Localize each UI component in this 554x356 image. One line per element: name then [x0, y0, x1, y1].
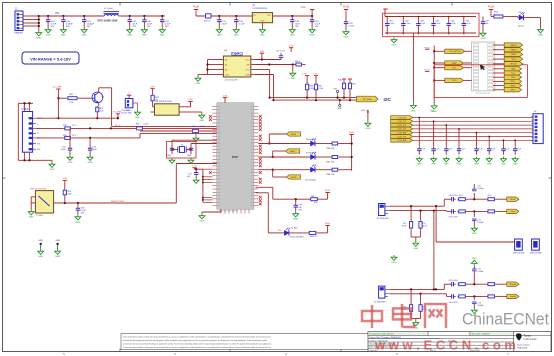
svg-text:GND: GND: [290, 35, 295, 37]
inductor L1: [98, 8, 122, 22]
ground audio1 resistors: [413, 241, 419, 250]
svg-text:GND: GND: [260, 35, 265, 37]
capacitor C52 crystal right: [187, 144, 193, 157]
svg-text:GND: GND: [36, 38, 41, 40]
svg-text:R36 470: R36 470: [327, 148, 335, 150]
svg-text:GND: GND: [127, 35, 132, 37]
resistor R63 for D5: [291, 231, 328, 238]
svg-text:A1: A1: [225, 63, 227, 66]
test point GND TP1: [38, 240, 44, 258]
svg-text:C63 0.47uF: C63 0.47uF: [449, 195, 459, 197]
capacitor C81: [385, 17, 395, 35]
pushbutton SW1: [30, 187, 58, 217]
wire R59 to Q1 base: [78, 97, 92, 99]
resistor R70 audio1: [402, 206, 413, 229]
jumper J6 Disable UART: [121, 99, 133, 115]
resistor R71 audio1: [419, 211, 427, 230]
wire U8 VCC to 1.8V flag: [255, 51, 281, 61]
svg-text:TRST: TRST: [511, 54, 517, 56]
svg-text:GND: GND: [217, 35, 222, 37]
wire SCL SDA to I2C bus: [255, 70, 275, 102]
ground below C51: [67, 155, 73, 164]
resistor R55: [63, 125, 77, 130]
svg-text:Mod. Date: 7/20/2017: Mod. Date: 7/20/2017: [472, 333, 490, 336]
svg-text:GND: GND: [417, 164, 422, 166]
power flag 3.3V output: [301, 6, 315, 16]
ferrite bead FB1: [204, 14, 212, 23]
svg-text:SCL: SCL: [246, 69, 250, 71]
EEPROM U8 (OpAC): [220, 50, 255, 81]
svg-text:KEY: KEY: [511, 90, 516, 92]
svg-text:25V: 25V: [147, 26, 151, 28]
svg-text:TIDA-01343: TIDA-01343: [517, 347, 527, 350]
svg-text:D6 Red: D6 Red: [306, 139, 314, 141]
resistor R79 audio2 row2: [458, 295, 467, 298]
svg-text:SH1: SH1: [37, 143, 40, 145]
LED D5 blue: [283, 228, 305, 239]
wire audio1 resistor commons: [411, 229, 420, 241]
wire D+ to DSP: [72, 127, 217, 129]
net tag LED1: [268, 132, 300, 145]
svg-text:GND: GND: [75, 222, 80, 224]
svg-text:GND: GND: [234, 35, 239, 37]
power label PU20 header upper: [424, 47, 430, 49]
svg-text:47pF: 47pF: [61, 149, 66, 151]
power flags above I2C pullups R44 R45: [302, 74, 318, 83]
svg-text:32.4: 32.4: [488, 195, 492, 197]
capacitor C85: [447, 17, 457, 35]
resistor R47 pullup: [348, 82, 356, 100]
wire DSP 1.2V pin column: [202, 169, 213, 202]
svg-text:47pF: 47pF: [92, 149, 97, 151]
capacitor C43: [159, 16, 171, 37]
wire USB shield loop: [18, 102, 33, 160]
wire vertical pair to audio2: [434, 206, 436, 289]
svg-text:A0: A0: [225, 58, 227, 61]
net tag LED2: [272, 149, 300, 158]
wire audio1 row1 mid: [467, 198, 487, 200]
watermark www.ECCN.com: [374, 339, 516, 353]
capacitor C84: [431, 17, 441, 35]
capacitor C62 bus bypass: [443, 124, 452, 166]
display bus tags: [391, 116, 413, 142]
resistor R36: [317, 142, 352, 150]
resistor R78 audio2 row1: [458, 283, 467, 286]
resistor R57 on Q1 emitter: [96, 103, 105, 119]
svg-text:GND: GND: [510, 85, 515, 87]
header right tags group 2: [493, 67, 522, 92]
wire decoupling rail top and bottom: [385, 9, 476, 34]
resistor R62: [295, 61, 306, 66]
resistor R44: [306, 83, 315, 98]
wire DSP to D7: [258, 156, 309, 158]
resistor R81 audio2 row2: [487, 295, 496, 298]
capacitor C71 coupling lower: [472, 211, 484, 226]
svg-text:I2C: I2C: [384, 97, 392, 103]
power flag right of U6: [185, 99, 193, 107]
svg-text:GND: GND: [68, 162, 73, 164]
ground below C57: [193, 178, 199, 183]
svg-text:LCD_D0: LCD_D0: [398, 117, 407, 119]
net tag header left 1: [434, 49, 471, 53]
net tag audio1 row2 Lout: [496, 209, 519, 213]
resistor R64: [151, 94, 160, 107]
capacitor C63 bus bypass: [456, 128, 465, 166]
svg-text:GND: GND: [38, 240, 43, 242]
svg-text:FB2: FB2: [136, 124, 139, 126]
svg-text:GND: GND: [200, 221, 205, 223]
capacitor C42: [141, 16, 152, 37]
capacitor C73 coupling lower audio2: [472, 296, 484, 308]
LED D6 Red: [306, 138, 317, 146]
svg-text:0.1uF: 0.1uF: [466, 23, 472, 25]
net tag audio1 row1 Rout: [496, 197, 519, 201]
svg-text:TDO: TDO: [452, 80, 457, 82]
crystal Y1: [178, 144, 186, 152]
net tag header left 2: [434, 61, 471, 65]
wire RESET from switch to DSP: [58, 164, 217, 205]
svg-text:GND: GND: [392, 262, 397, 264]
svg-text:LCD_EN: LCD_EN: [397, 140, 406, 142]
capacitor C50 crystal left: [167, 144, 174, 157]
wire decap box to ground rail: [412, 33, 414, 103]
svg-text:GND: GND: [29, 217, 34, 219]
svg-text:GND: GND: [392, 45, 397, 47]
svg-text:VIN: VIN: [55, 12, 59, 15]
svg-text:C65 0.47uF: C65 0.47uF: [449, 280, 459, 282]
svg-text:1500pF: 1500pF: [200, 126, 207, 128]
svg-text:LCD_D3: LCD_D3: [398, 129, 407, 131]
capacitor C62 near U8: [276, 51, 286, 60]
capacitor C83: [416, 17, 426, 35]
svg-text:LCD_RS: LCD_RS: [397, 133, 406, 135]
svg-text:GND: GND: [142, 35, 147, 37]
svg-text:warrant that this design will: warrant that this design will meet the s…: [123, 339, 267, 342]
ground below decap vertical: [410, 103, 416, 112]
wire audio2 row2: [390, 293, 450, 297]
ground below C53: [87, 155, 93, 164]
svg-text:0.1uF: 0.1uF: [491, 148, 495, 150]
svg-text:GND: GND: [293, 219, 298, 221]
ground stub below bus lines: [193, 133, 199, 141]
bus gnd label: [430, 111, 435, 113]
wire USB VBUS: [36, 117, 118, 119]
svg-text:Pu5V: Pu5V: [325, 190, 331, 192]
svg-text:GND: GND: [413, 248, 418, 250]
wire branch to headset detect ICs: [434, 242, 531, 247]
header J5 programming: [472, 42, 495, 95]
LED D4 green: [518, 12, 541, 28]
svg-text:TCK: TCK: [511, 59, 516, 61]
svg-text:HEADER: HEADER: [15, 32, 24, 35]
transistor pack U12: [530, 239, 541, 254]
svg-text:RSV: RSV: [511, 81, 516, 83]
power flag PU33 near R50: [488, 6, 495, 17]
svg-text:49.9k: 49.9k: [402, 226, 406, 228]
svg-text:0.1uF: 0.1uF: [421, 148, 425, 150]
svg-text:GND: GND: [55, 240, 60, 242]
power label PU20 header lower: [424, 70, 430, 72]
svg-text:GND: GND: [290, 78, 295, 80]
svg-text:TP5: TP5: [278, 230, 281, 232]
svg-text:GND: GND: [431, 164, 436, 166]
wire U9 output rail: [273, 15, 314, 17]
resistor R45: [314, 83, 323, 100]
LED D8 Orange: [306, 165, 317, 182]
resistor R50: [493, 12, 504, 18]
no-connect marks right of DSP: [259, 115, 262, 205]
resistor R74 audio1 row1: [487, 195, 496, 201]
resistor R56: [63, 135, 77, 139]
wire D5 to power flag U5V lower: [325, 223, 331, 233]
capacitor C58 on reset line: [76, 203, 87, 215]
svg-text:GND: GND: [457, 164, 462, 166]
svg-text:Y1: Y1: [181, 144, 183, 146]
svg-text:R37 470: R37 470: [327, 161, 335, 163]
capacitor C82: [401, 17, 411, 35]
svg-text:R62 0: R62 0: [295, 61, 300, 63]
wire crystal to DSP XTAL pins: [172, 140, 217, 143]
ground below C79: [293, 212, 299, 221]
DSP left pin stubs: [212, 107, 216, 206]
svg-text:w w w . E C C N . c o m: w w w . E C C N . c o m: [374, 339, 516, 353]
resistor R75 audio1 row2: [487, 210, 496, 213]
capacitor C65 series audio2 row1: [449, 280, 459, 286]
ground below C73: [471, 308, 477, 317]
svg-text:Instruments: Instruments: [524, 338, 538, 341]
svg-text:1500pF: 1500pF: [477, 222, 484, 224]
resistor R46 pullup: [338, 80, 346, 98]
svg-text:4.99k: 4.99k: [309, 88, 314, 90]
svg-text:25V: 25V: [132, 26, 136, 28]
capacitor C38: [289, 16, 300, 37]
svg-text:0.1uF: 0.1uF: [349, 26, 355, 28]
capacitor C72 coupling upper audio2: [472, 266, 484, 284]
wire audio2 row2 mid: [467, 295, 487, 297]
svg-text:EMU1: EMU1: [510, 50, 517, 52]
ferrite bead FB2 on D+ line: [136, 124, 149, 130]
net tag audio2 row1: [496, 282, 519, 286]
note VIN RANGE box: [22, 52, 79, 64]
net tag I2C: [357, 96, 392, 103]
ground below C71: [471, 226, 477, 235]
svg-text:GND: GND: [82, 35, 87, 37]
wire DSP pin to C79 rail: [256, 187, 328, 200]
svg-text:TDI: TDI: [511, 73, 515, 75]
power flag 1.8V above R60: [63, 178, 68, 189]
net tag header left 4: [434, 78, 471, 82]
svg-text:2.2k: 2.2k: [100, 111, 104, 113]
capacitor C44: [60, 16, 73, 37]
svg-text:Texas Instruments and/or its l: Texas Instruments and/or its licensors d…: [123, 335, 271, 338]
svg-text:Lout: Lout: [511, 210, 516, 213]
connector J4 display: [532, 111, 544, 144]
svg-text:USB-IN: USB-IN: [22, 109, 30, 111]
DSP bottom pin stubs: [221, 209, 249, 213]
wire U8 WP row to R62: [255, 63, 295, 65]
wire DSP to D6: [258, 143, 309, 145]
svg-text:LED1: LED1: [290, 151, 296, 153]
svg-text:PU18: PU18: [343, 6, 350, 9]
svg-text:GND: GND: [160, 35, 165, 37]
watermark chinese char dian: [393, 304, 414, 327]
svg-text:GND: GND: [310, 35, 315, 37]
svg-text:VIN RANGE = 5.6-18V: VIN RANGE = 5.6-18V: [30, 56, 71, 61]
wire header left vertical bus: [433, 46, 435, 104]
svg-text:Texas Instruments and/or its l: Texas Instruments and/or its licensors d…: [123, 346, 271, 349]
svg-text:0.1uF: 0.1uF: [517, 148, 521, 150]
svg-text:L1 10uH: L1 10uH: [104, 8, 113, 10]
svg-text:D5 Blue: D5 Blue: [291, 228, 299, 230]
svg-text:0.1uF: 0.1uF: [405, 23, 411, 25]
svg-text:GND: GND: [344, 37, 349, 39]
capacitor C57 left of DSP: [187, 169, 199, 178]
no-connect marks left of DSP: [209, 115, 212, 174]
capacitor C64 series audio1 row2: [449, 209, 459, 218]
capacitor C79: [294, 199, 303, 211]
power flag 1.8V at DSP top: [223, 95, 228, 102]
regulator U9 TLV76233: [252, 5, 273, 27]
title block table: [368, 332, 551, 352]
capacitor C70 coupling upper: [472, 184, 484, 199]
wire U8 left pins common: [198, 60, 220, 77]
svg-text:U6 SN74LVC1G07: U6 SN74LVC1G07: [156, 101, 174, 103]
svg-text:PTS645: PTS645: [36, 215, 44, 217]
watermark chinese char wang: [425, 304, 446, 328]
svg-text:EMU0: EMU0: [510, 45, 517, 47]
svg-text:GND: GND: [472, 233, 477, 235]
ground above C72: [471, 258, 477, 266]
capacitor C36: [233, 16, 245, 37]
capacitor C67 bus bypass: [512, 139, 521, 165]
capacitor C45: [81, 16, 95, 37]
svg-text:GND: GND: [411, 110, 416, 112]
ground right of U6: [190, 112, 205, 122]
decoupling group box: [383, 13, 479, 37]
power flag PU20: [193, 6, 200, 17]
svg-text:1.2V: 1.2V: [289, 45, 294, 47]
svg-text:0.1uF: 0.1uF: [505, 148, 509, 150]
svg-text:49.9: 49.9: [459, 195, 463, 197]
svg-text:24LC256-I/SN: 24LC256-I/SN: [225, 80, 239, 82]
ground below R62: [290, 65, 296, 81]
svg-text:GND: GND: [481, 38, 486, 40]
ground below jumper: [133, 103, 141, 119]
svg-text:C54: C54: [192, 126, 195, 128]
svg-text:0.1uF: 0.1uF: [435, 148, 439, 150]
svg-text:0.1uF: 0.1uF: [420, 23, 426, 25]
svg-text:1.8V: 1.8V: [63, 178, 68, 180]
svg-text:GND: GND: [50, 169, 55, 171]
resistor R80 audio2 row1: [487, 283, 496, 286]
wire audio1 row2 mid: [467, 210, 487, 212]
wire USB ground row: [18, 152, 52, 162]
wire USB aux lines to DSP: [112, 126, 217, 133]
svg-text:GND: GND: [196, 83, 201, 85]
svg-text:RoutH: RoutH: [510, 283, 517, 286]
svg-text:DSP: DSP: [232, 155, 238, 159]
svg-text:LED2: LED2: [291, 177, 297, 179]
power flag for decoupling rail: [383, 8, 387, 10]
svg-text:GND: GND: [260, 21, 265, 23]
svg-text:GND: GND: [88, 162, 93, 164]
ground crystal caps: [169, 158, 194, 163]
capacitor C65 bus bypass: [486, 136, 495, 166]
wire audio2 resistor commons: [411, 313, 420, 321]
ground below SW1: [28, 210, 34, 219]
net tag LED3: [272, 169, 301, 180]
power flag 1.2V left of DSP: [192, 165, 203, 170]
svg-text:3.3V: 3.3V: [301, 6, 306, 9]
svg-text:A2: A2: [225, 68, 227, 71]
svg-text:10uF: 10uF: [222, 24, 228, 26]
svg-text:GND: GND: [513, 164, 518, 166]
resistor R38: [317, 168, 352, 176]
transistor pack U11: [513, 239, 524, 254]
capacitor C66 series audio2 row2: [449, 294, 459, 304]
resistor R60: [63, 189, 72, 203]
DSP U2 body: [217, 103, 254, 213]
watermark ChinaECNet: [462, 310, 549, 329]
wire crystal to caps: [171, 149, 192, 151]
svg-text:LED0: LED0: [291, 134, 297, 136]
crystal circuit box: [167, 142, 197, 159]
svg-text:3.3V: 3.3V: [150, 86, 155, 88]
wire audio2 row1 mid: [467, 283, 487, 285]
DSP right pin stubs: [254, 107, 258, 206]
svg-text:C62 0.1uF: C62 0.1uF: [276, 51, 286, 53]
ground stray near jack2: [391, 255, 397, 264]
svg-text:0.1uF: 0.1uF: [389, 23, 395, 25]
resistor R77 audio2: [419, 294, 427, 313]
svg-text:10k: 10k: [314, 202, 317, 204]
svg-text:GND: GND: [365, 128, 370, 130]
svg-text:VCC: VCC: [246, 59, 251, 61]
svg-text:GND: GND: [199, 120, 204, 122]
svg-text:1.8V: 1.8V: [260, 51, 265, 53]
capacitor C60 bus bypass: [416, 117, 425, 166]
test point SDA: [338, 100, 343, 110]
title block disclaimer box: [121, 334, 371, 350]
capacitor C86: [462, 17, 472, 35]
svg-text:LoutH: LoutH: [510, 295, 516, 298]
wire USB D+ line: [36, 127, 64, 129]
ground below decap box left: [391, 38, 397, 47]
ferrite bead FB3 on line3: [192, 126, 206, 132]
svg-text:Designed for: Public Release: Designed for: Public Release: [370, 333, 394, 336]
svg-text:D8 Orange: D8 Orange: [306, 178, 317, 181]
wire I2C SDA line: [274, 99, 357, 101]
audio jack J7: [377, 204, 390, 221]
svg-text:its licensors do not warrant t: its licensors do not warrant that the de…: [123, 343, 272, 346]
wire after L1: [121, 15, 165, 17]
svg-text:TCK_RTCK: TCK_RTCK: [449, 51, 461, 53]
test point SCL: [334, 89, 339, 98]
svg-text:0.1uF: 0.1uF: [239, 24, 245, 26]
svg-text:GND: GND: [430, 111, 435, 113]
svg-text:TDI: TDI: [452, 68, 456, 70]
ground below J1 bus: [36, 31, 42, 40]
capacitor C40: [309, 16, 321, 37]
ground below C58: [75, 215, 81, 224]
capacitor C66 bus bypass: [501, 139, 510, 165]
svg-text:GND: GND: [38, 256, 43, 258]
wire J1 pins to vertical joining bus: [23, 15, 40, 31]
power flag and resistor R64: [150, 86, 155, 94]
resistor R59: [67, 94, 79, 104]
svg-text:Disable UArt: Disable UArt: [121, 111, 132, 114]
net tag header left 3: [434, 66, 471, 70]
